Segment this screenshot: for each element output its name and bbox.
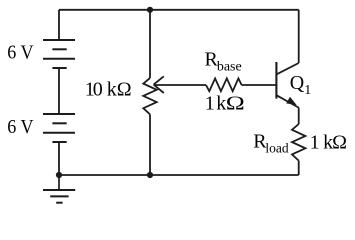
potentiometer R1 10 kOhm (zigzag body) bbox=[143, 78, 156, 114]
wire: battery B2 to bottom rail bbox=[58, 142, 60, 175]
ground symbol bbox=[43, 175, 75, 203]
svg-text:Rload: Rload bbox=[253, 131, 289, 156]
battery B1 6 V bbox=[43, 40, 75, 68]
resistor Rbase 1 kOhm (zigzag body) bbox=[206, 78, 242, 91]
transistor Q1: emitter lead bbox=[276, 95, 298, 107]
battery B2 6 V bbox=[43, 114, 75, 142]
svg-text:1 kΩ: 1 kΩ bbox=[205, 93, 245, 115]
svg-text:6 V: 6 V bbox=[7, 116, 34, 138]
svg-text:Q1: Q1 bbox=[290, 72, 311, 98]
wire: resistor Rbase to base of Q1 bbox=[242, 84, 277, 86]
potentiometer wiper arrow bbox=[154, 76, 164, 93]
wire: top rail from battery + to collector branch bbox=[59, 9, 299, 11]
wire: left rail, top wire down to battery B1 bbox=[58, 10, 60, 40]
transistor Q1: collector lead bbox=[276, 63, 298, 74]
wire: bottom rail bbox=[59, 174, 299, 176]
junction: bottom node (potentiometer low end) bbox=[147, 172, 153, 178]
transistor Q1: emitter arrowhead bbox=[286, 97, 296, 105]
wire: top node down to potentiometer bbox=[149, 10, 151, 78]
transistor Q1: base bar bbox=[275, 62, 277, 99]
junction: bottom-left node above ground bbox=[56, 172, 62, 178]
resistor Rload 1 kOhm (zigzag body) bbox=[292, 124, 305, 161]
wire: resistor Rload to bottom rail bbox=[298, 161, 300, 175]
svg-text:1 kΩ: 1 kΩ bbox=[310, 132, 347, 154]
wire: emitter down to resistor Rload bbox=[298, 108, 300, 124]
svg-text:Rbase: Rbase bbox=[205, 49, 242, 75]
wire: collector up to top rail bbox=[298, 10, 300, 63]
wire: potentiometer bottom to bottom rail bbox=[149, 114, 151, 175]
wire: wiper to resistor Rbase bbox=[154, 84, 206, 86]
junction: top node (potentiometer tap) bbox=[147, 7, 153, 13]
svg-text:10 kΩ: 10 kΩ bbox=[85, 79, 132, 101]
svg-text:6 V: 6 V bbox=[7, 42, 34, 64]
wire: between battery B1 and battery B2 bbox=[58, 68, 60, 114]
